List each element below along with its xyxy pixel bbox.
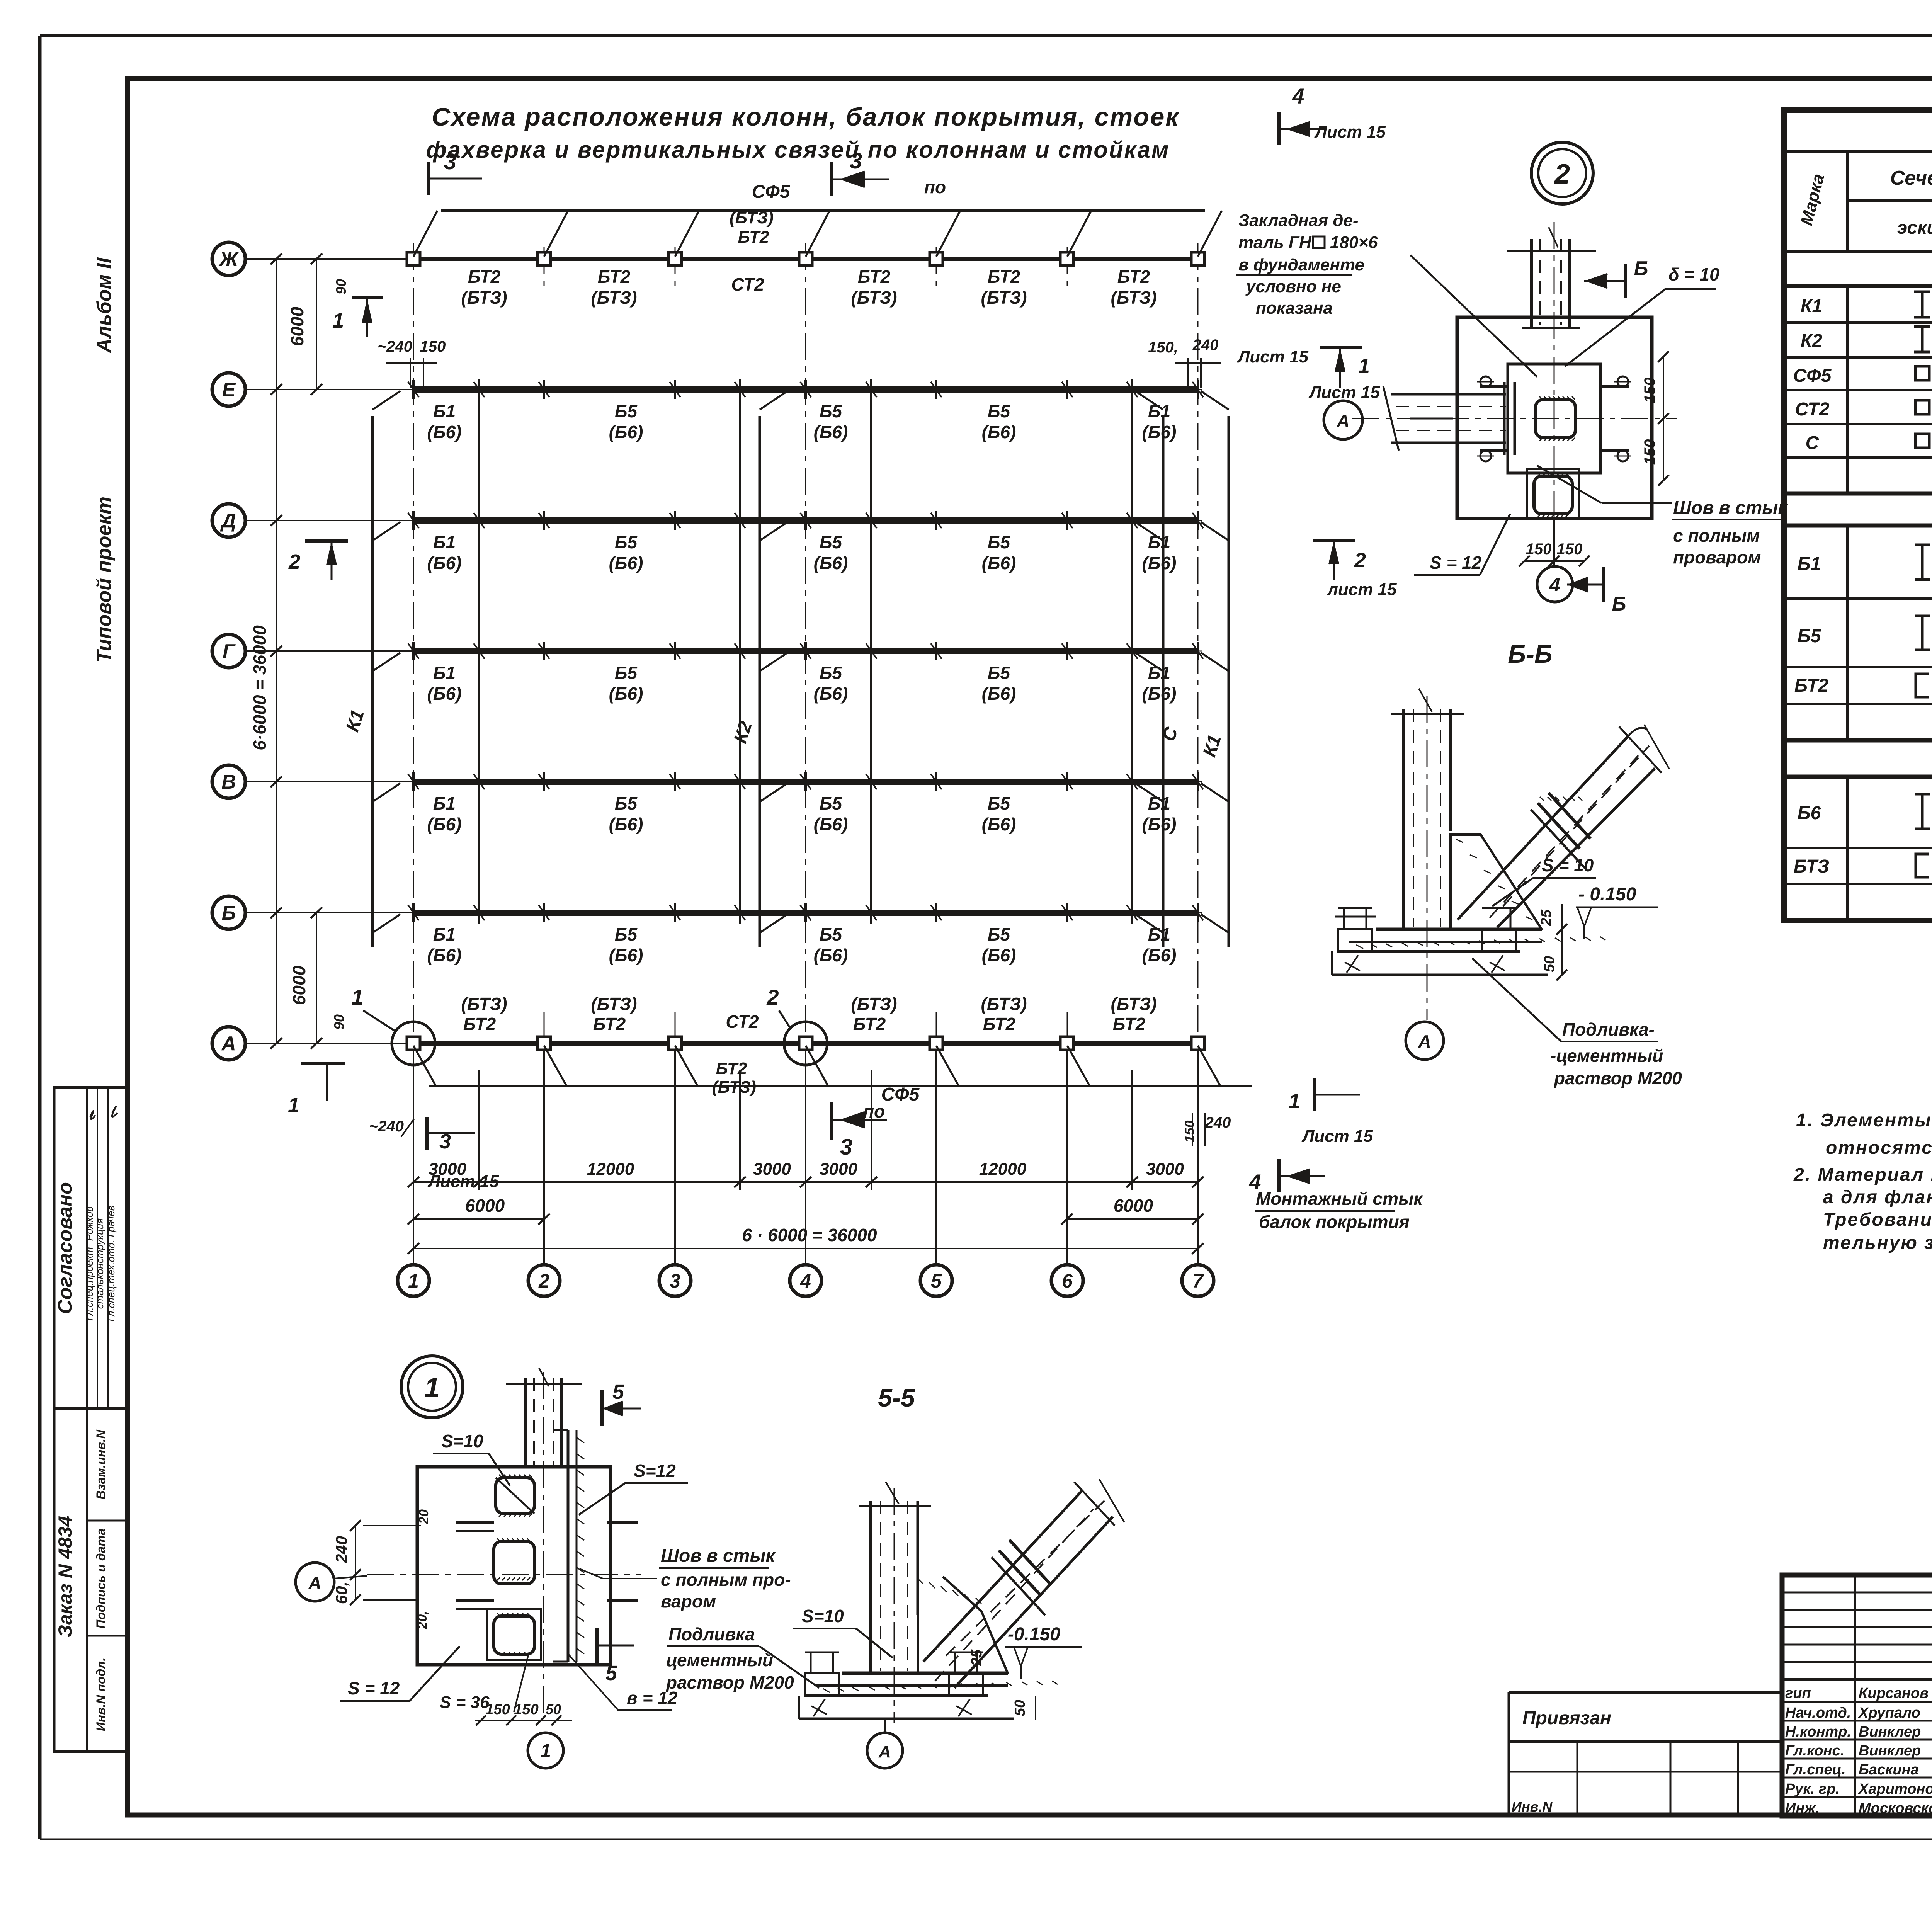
svg-text:(Б6): (Б6) (982, 422, 1016, 442)
svg-text:Б1: Б1 (1148, 663, 1170, 683)
svg-text:показана: показана (1256, 299, 1333, 318)
svg-text:1: 1 (1358, 354, 1370, 378)
svg-text:150: 150 (485, 1701, 510, 1718)
svg-text:БТ2: БТ2 (468, 267, 501, 287)
svg-text:S=12: S=12 (634, 1461, 676, 1481)
axis circle Ж (212, 242, 413, 276)
svg-text:Б5: Б5 (988, 401, 1011, 421)
svg-text:Е: Е (222, 379, 236, 401)
svg-text:Требования к материалу флан: Требования к материалу фланцев смотреть … (1823, 1209, 1932, 1230)
svg-text:(Б6): (Б6) (1142, 814, 1177, 834)
svg-text:СТ2: СТ2 (731, 274, 764, 294)
svg-text:(Б6): (Б6) (982, 684, 1016, 704)
svg-text:БТЗ: БТЗ (1794, 856, 1829, 877)
detail node 1: callout circle (401, 1356, 463, 1418)
svg-text:Рук. гр.: Рук. гр. (1785, 1781, 1840, 1797)
svg-text:5: 5 (931, 1270, 942, 1292)
section flag 1 left top (332, 298, 383, 337)
roof beams row Б (408, 903, 1203, 965)
detail node 2: flag Б top (1584, 257, 1648, 298)
section flag 4 bottom right (1248, 1159, 1325, 1194)
svg-text:Лист 15: Лист 15 (1314, 122, 1386, 141)
svg-text:БТ2: БТ2 (983, 1014, 1016, 1034)
svg-text:Лист 15: Лист 15 (1237, 347, 1308, 366)
margin stamps: Заказ / Взам / Подпись / Инв (54, 1408, 128, 1752)
svg-text:относятся ко II варианту.: относятся ко II варианту. (1826, 1138, 1932, 1158)
fachwerk beams row Ж (407, 208, 1205, 308)
svg-text:фахверка и вертикальных связей: фахверка и вертикальных связей по колонн… (426, 137, 1170, 163)
svg-text:(БТЗ): (БТЗ) (461, 994, 507, 1014)
svg-text:~240: ~240 (378, 338, 412, 355)
svg-text:С: С (1806, 433, 1820, 453)
table row СТ2 (1795, 399, 1932, 420)
svg-text:(Б6): (Б6) (609, 553, 643, 573)
section 5-5: axis circle А (867, 1719, 903, 1768)
vertical bracing С (1135, 391, 1182, 947)
svg-text:150: 150 (1557, 541, 1583, 558)
svg-text:1: 1 (1289, 1090, 1300, 1113)
top chord СФ5 (413, 182, 1222, 257)
detail node 2: weld note (1537, 466, 1788, 567)
svg-text:Г: Г (223, 640, 236, 663)
svg-text:1: 1 (540, 1740, 551, 1762)
table row Б1 (1798, 538, 1932, 599)
axis circle 4 (790, 1265, 821, 1296)
svg-text:Подпись и дата: Подпись и дата (94, 1528, 108, 1628)
svg-text:2: 2 (766, 985, 779, 1009)
detail node 1: flag 5 bottom (597, 1628, 634, 1685)
svg-text:БТ2: БТ2 (853, 1014, 886, 1034)
svg-text:Шов в стык: Шов в стык (1673, 498, 1788, 518)
dimension line 3000/12000 (408, 1160, 1204, 1187)
svg-text:в фундаменте: в фундаменте (1238, 255, 1364, 274)
svg-text:Гл.конс.: Гл.конс. (1785, 1743, 1844, 1759)
svg-text:БТ2: БТ2 (858, 267, 891, 287)
svg-text:(Б6): (Б6) (427, 422, 462, 442)
svg-text:Шов в стык: Шов в стык (661, 1546, 776, 1566)
svg-text:(Б6): (Б6) (609, 814, 643, 834)
svg-text:(Б6): (Б6) (814, 814, 848, 834)
svg-text:В: В (221, 771, 236, 793)
svg-text:Б5: Б5 (615, 924, 638, 944)
svg-text:1. Элементы конструкций указ: 1. Элементы конструкций указанные в скоб… (1796, 1110, 1932, 1131)
svg-text:по: по (924, 177, 946, 197)
bottom chord СФ5 (413, 1046, 1252, 1105)
axis circle Д (212, 504, 413, 537)
section 5-5: diagonal brace (923, 1479, 1124, 1688)
axis circle 5 (920, 1265, 952, 1296)
svg-text:2. Материал конструкций смот: 2. Материал конструкций смотреть ведомос… (1793, 1165, 1932, 1185)
section flag 4 top right (1279, 84, 1386, 145)
svg-text:25: 25 (1538, 909, 1554, 926)
svg-text:Ж: Ж (218, 248, 239, 270)
svg-text:5-5: 5-5 (878, 1383, 915, 1412)
section Б-Б: column (1391, 689, 1464, 1020)
svg-text:3: 3 (670, 1270, 680, 1292)
detail node 1: weld note (580, 1546, 791, 1611)
svg-text:(Б6): (Б6) (427, 945, 462, 965)
table rows К1..С lines (1784, 323, 1932, 458)
detail node 2: inner gusset plates (1480, 364, 1629, 473)
detail node 2: axis circle А (1324, 401, 1362, 439)
svg-text:150: 150 (1641, 378, 1658, 403)
section 5-5: gusset plate (918, 1577, 1008, 1673)
svg-text:90: 90 (331, 1014, 347, 1030)
svg-text:Инв.N: Инв.N (1512, 1799, 1553, 1815)
svg-text:К2: К2 (730, 719, 756, 746)
section flag 3 top middle (832, 148, 946, 197)
svg-text:цементный: цементный (666, 1650, 773, 1670)
svg-text:150,: 150, (1148, 339, 1178, 356)
detail node 1: bottom dims 150/150/50 (475, 1701, 572, 1725)
svg-text:Инж.: Инж. (1785, 1800, 1820, 1817)
detail node 1: flag 5 top (602, 1380, 641, 1426)
section 5-5: base plate and grout (799, 1673, 1058, 1719)
svg-text:СТ2: СТ2 (1795, 399, 1830, 420)
svg-text:лист 15: лист 15 (1327, 580, 1397, 599)
svg-text:60,: 60, (332, 1582, 350, 1604)
svg-text:Винклер: Винклер (1859, 1724, 1921, 1740)
svg-text:Б1: Б1 (433, 793, 456, 813)
svg-text:1: 1 (351, 985, 363, 1009)
svg-text:Б6: Б6 (1798, 803, 1821, 823)
svg-text:(БТЗ): (БТЗ) (981, 287, 1027, 308)
svg-text:А: А (221, 1032, 236, 1055)
svg-text:150: 150 (1526, 541, 1552, 558)
section Б-Б: diagonal brace (1458, 725, 1669, 927)
section Б-Б: dims 25 / 50 (1538, 904, 1567, 980)
svg-text:Хрупало: Хрупало (1858, 1705, 1920, 1721)
svg-text:Б1: Б1 (1148, 532, 1170, 552)
table Ведомость элементов: outer and header (1784, 110, 1932, 920)
bottom dimension extension lines (413, 1051, 1198, 1264)
section flag 3 top left (428, 149, 482, 195)
table row СФ5 (1793, 366, 1932, 386)
offset marks 150/240 top right (1148, 337, 1308, 388)
table rows Б1..БТЗ lines (1784, 566, 1932, 884)
svg-text:Б1: Б1 (1148, 401, 1170, 421)
svg-text:4: 4 (800, 1270, 811, 1292)
section flag 1 right top (1308, 348, 1380, 402)
svg-text:Схема расположения колонн, бал: Схема расположения колонн, балок покрыти… (432, 102, 1180, 131)
svg-text:25: 25 (969, 1649, 985, 1666)
svg-text:Б5: Б5 (615, 663, 638, 683)
svg-text:50: 50 (1012, 1700, 1028, 1716)
svg-text:Винклер: Винклер (1859, 1743, 1921, 1759)
svg-text:Б5: Б5 (988, 663, 1011, 683)
svg-text:Б: Б (222, 902, 236, 924)
svg-text:Б5: Б5 (820, 663, 843, 683)
svg-text:(Б6): (Б6) (814, 684, 848, 704)
svg-text:(БТЗ): (БТЗ) (851, 994, 897, 1014)
svg-text:Б1: Б1 (433, 532, 456, 552)
table row Б6 (1798, 789, 1932, 847)
svg-text:S=10: S=10 (802, 1606, 844, 1626)
table row БТ2 (1794, 670, 1932, 704)
svg-text:3: 3 (444, 149, 456, 174)
svg-text:12000: 12000 (587, 1160, 634, 1179)
svg-text:(БТЗ): (БТЗ) (851, 287, 897, 308)
svg-text:Московскова: Московскова (1859, 1800, 1932, 1817)
section Б-Б: level -0.150 (1576, 884, 1658, 939)
section 5-5: anchor bolt boxes (805, 1652, 983, 1716)
table row С (1806, 433, 1932, 454)
svg-text:7: 7 (1192, 1270, 1204, 1292)
svg-text:БТ2: БТ2 (988, 267, 1020, 287)
svg-text:S = 12: S = 12 (1430, 553, 1482, 573)
svg-text:Кирсанов: Кирсанов (1859, 1685, 1929, 1701)
section 5-5: column (859, 1482, 931, 1723)
detail node 1: S=36 (440, 1654, 529, 1712)
vertical bracing К2 (730, 391, 787, 947)
svg-text:А: А (1336, 411, 1349, 431)
svg-text:(Б6): (Б6) (814, 553, 848, 573)
svg-text:(Б6): (Б6) (814, 945, 848, 965)
horizontal axis lines (rows) (413, 259, 1205, 1043)
svg-text:Монтажный стык: Монтажный стык (1256, 1189, 1423, 1209)
svg-text:БТ2: БТ2 (1113, 1014, 1146, 1034)
left dimension 6000 bottom (289, 907, 322, 1049)
detail node 1: centerlines (367, 1372, 641, 1716)
svg-text:(Б6): (Б6) (609, 422, 643, 442)
svg-text:3000: 3000 (820, 1160, 857, 1179)
section flag 1 right bottom (1289, 1078, 1373, 1146)
svg-text:1: 1 (332, 309, 344, 332)
svg-text:БТ2: БТ2 (716, 1059, 747, 1078)
svg-text:12000: 12000 (979, 1160, 1027, 1179)
svg-text:Б-Б: Б-Б (1508, 640, 1552, 668)
table row Б5 (1798, 609, 1932, 666)
svg-text:240: 240 (1205, 1114, 1231, 1131)
detail node 1: column shaft above (506, 1368, 582, 1468)
svg-text:5: 5 (612, 1380, 624, 1403)
axis circle В (212, 765, 413, 798)
section Б-Б: gusset plate (1451, 835, 1542, 929)
svg-text:(БТЗ): (БТЗ) (981, 994, 1027, 1014)
svg-text:К1: К1 (1199, 732, 1225, 759)
svg-text:150: 150 (1182, 1121, 1197, 1143)
svg-text:4: 4 (1549, 574, 1560, 595)
svg-text:(БТЗ): (БТЗ) (712, 1078, 756, 1097)
svg-text:Подливка-: Подливка- (1562, 1019, 1655, 1039)
svg-text:240: 240 (332, 1536, 350, 1563)
detail node 2: text 6=10 (1565, 264, 1719, 366)
offset 240 bottom right (1182, 1113, 1231, 1146)
svg-text:БТ2: БТ2 (738, 228, 769, 247)
svg-text:(БТЗ): (БТЗ) (591, 287, 637, 308)
detail node 2: lower stand tube section (1527, 469, 1579, 519)
axis circle 6 (1051, 1265, 1083, 1296)
title block left grid (1782, 1575, 1932, 1816)
detail node 1: S=10 note (433, 1431, 510, 1486)
svg-text:Б5: Б5 (988, 532, 1011, 552)
svg-text:2: 2 (538, 1270, 549, 1292)
svg-text:S = 10: S = 10 (1542, 855, 1594, 875)
svg-text:(БТЗ): (БТЗ) (461, 287, 507, 308)
svg-text:-0.150: -0.150 (1008, 1624, 1060, 1645)
svg-text:150: 150 (420, 338, 446, 355)
svg-text:варом: варом (661, 1591, 716, 1611)
svg-text:К1: К1 (342, 707, 368, 734)
vertical bracing К1 (342, 391, 400, 947)
svg-text:Б5: Б5 (820, 793, 843, 813)
axis circle 2 (528, 1265, 560, 1296)
fachwerk beams row А (407, 994, 1205, 1097)
svg-text:(Б6): (Б6) (982, 814, 1016, 834)
svg-text:6000: 6000 (1114, 1196, 1153, 1216)
svg-text:(Б6): (Б6) (982, 945, 1016, 965)
svg-text:3: 3 (840, 1135, 852, 1160)
left dimension line 36000 (245, 253, 317, 1049)
svg-text:а для фланцев - 14Г2АФ-12 по: а для фланцев - 14Г2АФ-12 по ГОСТ 19282-… (1823, 1187, 1932, 1208)
svg-text:(БТЗ): (БТЗ) (591, 994, 637, 1014)
svg-text:1: 1 (408, 1270, 419, 1292)
svg-text:6: 6 (1062, 1270, 1073, 1292)
svg-text:БТ2: БТ2 (1117, 267, 1150, 287)
table band II вариант (1784, 740, 1932, 777)
section Б-Б: S=10 note (1492, 855, 1596, 906)
svg-text:3000: 3000 (1146, 1160, 1184, 1179)
detail node 1: base plate (417, 1467, 611, 1665)
svg-text:проваром: проваром (1673, 547, 1761, 567)
note Закладная деталь (1236, 211, 1537, 377)
roof beams row В (408, 772, 1203, 834)
svg-text:50: 50 (1541, 956, 1558, 972)
svg-text:(Б6): (Б6) (427, 814, 462, 834)
svg-text:Б5: Б5 (988, 924, 1011, 944)
svg-text:20: 20 (417, 1509, 431, 1524)
svg-text:Гл.спец.проект- Рожков: Гл.спец.проект- Рожков (83, 1206, 95, 1321)
axis circle 1 (398, 1265, 429, 1296)
detail node 2: bottom dim 150/150 (1519, 541, 1590, 566)
svg-text:20,: 20, (415, 1611, 430, 1629)
svg-text:Б1: Б1 (433, 924, 456, 944)
svg-text:δ = 10: δ = 10 (1668, 264, 1719, 284)
svg-text:Б5: Б5 (988, 793, 1011, 813)
svg-text:Альбом II: Альбом II (93, 257, 116, 354)
svg-text:(Б6): (Б6) (1142, 553, 1177, 573)
svg-text:по: по (863, 1101, 885, 1121)
section Б-Б: grout note (1472, 958, 1682, 1088)
detail node 2: callout circle (1531, 142, 1593, 204)
svg-text:Инв.N подл.: Инв.N подл. (94, 1658, 108, 1731)
detail node 2: text S=12 (1414, 514, 1510, 575)
section flag 1 left bottom (288, 1063, 345, 1117)
detail node 2: centerlines (1352, 222, 1677, 564)
svg-text:(Б6): (Б6) (427, 684, 462, 704)
detail node 2: base plate (1457, 317, 1652, 519)
dimension line 36000 total (408, 1225, 1204, 1254)
detail node 1: side gussets (456, 1522, 638, 1609)
svg-text:Б5: Б5 (820, 924, 843, 944)
svg-text:180×6: 180×6 (1330, 233, 1378, 252)
svg-text:S=10: S=10 (441, 1431, 483, 1451)
axis circle Б (212, 896, 413, 929)
svg-text:БТ2: БТ2 (1794, 675, 1828, 696)
svg-text:Б5: Б5 (615, 401, 638, 421)
section Б-Б: anchor bolt boxes (1335, 908, 1516, 973)
section Б-Б: base plate and grout (1332, 929, 1605, 975)
title block roles (1785, 1685, 1932, 1817)
axis circle 7 (1182, 1265, 1214, 1296)
svg-text:Б1: Б1 (433, 401, 456, 421)
section 5-5: level -0.150 (1005, 1624, 1082, 1679)
table body verticals (1847, 286, 1932, 920)
svg-text:БТ2: БТ2 (593, 1014, 626, 1034)
section flag 3 bottom middle (832, 1101, 887, 1160)
offset marks ~240/150 top left (378, 338, 446, 388)
detail node 2: flag Б bottom with circle 4 (1537, 519, 1626, 615)
svg-text:3: 3 (850, 148, 862, 173)
svg-text:150: 150 (514, 1701, 538, 1718)
svg-text:СТ2: СТ2 (726, 1012, 759, 1032)
svg-text:(БТЗ): (БТЗ) (1111, 994, 1156, 1014)
title block frame (1782, 1575, 1932, 1816)
note Монтажный стык балок покрытия (1255, 1189, 1423, 1232)
detail node 1: в=12 (568, 1654, 678, 1710)
svg-text:3: 3 (439, 1130, 451, 1153)
svg-text:раствор М200: раствор М200 (665, 1672, 794, 1692)
vertical axis lines (columns 1-7) (413, 243, 1198, 1264)
svg-text:Подливка: Подливка (668, 1624, 755, 1644)
svg-text:(Б6): (Б6) (814, 422, 848, 442)
svg-text:- 0.150: - 0.150 (1578, 884, 1636, 905)
detail node 2: column tube section (1536, 396, 1575, 441)
detail node 2: beam from left (1383, 382, 1515, 455)
svg-text:Б1: Б1 (433, 663, 456, 683)
svg-text:(Б6): (Б6) (609, 684, 643, 704)
detail node 1: S=12 bottom left (340, 1646, 460, 1701)
svg-text:1: 1 (424, 1373, 440, 1403)
axis circle 3 (659, 1265, 691, 1296)
svg-text:Гл.спец.: Гл.спец. (1785, 1762, 1846, 1778)
svg-text:240: 240 (1192, 337, 1219, 354)
detail node 1: left dims 240/60 (332, 1509, 431, 1630)
svg-text:Б5: Б5 (615, 532, 638, 552)
svg-text:2: 2 (288, 550, 300, 573)
section 5-5: grout note (665, 1624, 819, 1692)
svg-text:(Б6): (Б6) (1142, 684, 1177, 704)
svg-text:стальконструкция: стальконструкция (94, 1218, 105, 1309)
detail node 2: column shaft above (1507, 227, 1596, 328)
table row К2 (1801, 327, 1932, 352)
svg-text:5: 5 (605, 1662, 617, 1685)
roof beams row Е (408, 380, 1203, 442)
table row К1 (1801, 292, 1932, 318)
svg-text:2: 2 (1554, 159, 1570, 190)
section flag 2 left (288, 541, 348, 580)
svg-text:Б5: Б5 (820, 532, 843, 552)
section 5-5: brace flange splice (992, 1540, 1050, 1615)
section Б-Б: axis circle А (1406, 1022, 1444, 1060)
detail node 1: axis circle А (296, 1563, 367, 1601)
node callout circle 1 (351, 985, 435, 1065)
svg-text:(Б6): (Б6) (982, 553, 1016, 573)
svg-text:СФ5: СФ5 (1793, 366, 1832, 386)
svg-text:балок покрытия: балок покрытия (1259, 1212, 1410, 1232)
svg-text:(БТЗ): (БТЗ) (1111, 287, 1156, 308)
axis circle Г (212, 634, 413, 668)
svg-text:К1: К1 (1801, 296, 1822, 316)
svg-text:А: А (308, 1573, 321, 1593)
axis circle Е (212, 373, 413, 406)
svg-text:6·6000 = 36000: 6·6000 = 36000 (250, 625, 270, 750)
svg-text:Заказ N 4834: Заказ N 4834 (54, 1516, 76, 1637)
svg-text:150: 150 (1641, 439, 1658, 465)
table band I,III варианты (1784, 493, 1932, 526)
svg-text:СФ5: СФ5 (752, 182, 791, 202)
svg-text:2: 2 (1354, 549, 1366, 572)
